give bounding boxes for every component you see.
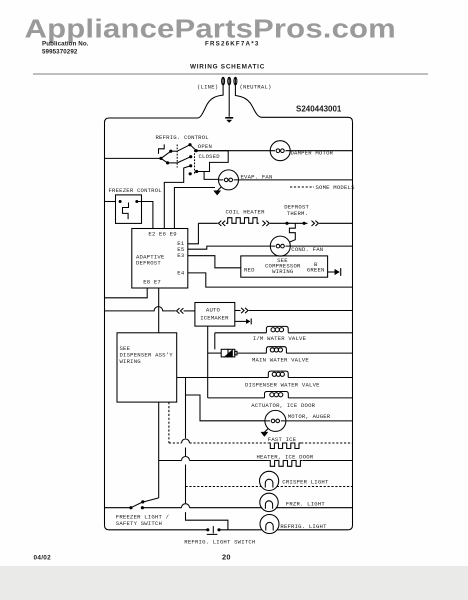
svg-text:E3: E3 [177, 252, 184, 259]
svg-text:AUTO: AUTO [206, 307, 221, 314]
freezer control box [116, 195, 142, 224]
main box top border right segment (NEUTRAL wire) [235, 85, 352, 122]
svg-text:THERM.: THERM. [287, 210, 308, 217]
wire pivot2 to linkage [168, 162, 178, 164]
node freezer control right [135, 200, 138, 203]
wire E8 to left border [105, 288, 148, 298]
svg-text:GREEN: GREEN [307, 267, 325, 274]
wire icemaker aux arrow [235, 320, 247, 322]
defrost thermostat step [289, 223, 295, 242]
hop freezer row over drop [182, 504, 190, 508]
hop heater row over drop [182, 457, 190, 461]
svg-text:ICEMAKER: ICEMAKER [200, 315, 229, 322]
node refrig control common [159, 157, 162, 160]
wire icemaker box to chevrons right [235, 310, 241, 312]
wire fast ice dashed right [301, 442, 352, 444]
node refrig switch left [206, 528, 209, 531]
node freezer switch left [129, 506, 132, 509]
wire defrost line to right border [319, 222, 352, 224]
wire chevrons to icemaker box [184, 310, 195, 312]
auger motor M4 [265, 410, 286, 431]
wire freezer row to bulb [190, 507, 263, 509]
svg-text:FRS26KF7A*3: FRS26KF7A*3 [205, 41, 259, 48]
wire crisper dashed left [186, 486, 262, 488]
auto icemaker box [195, 303, 235, 327]
svg-text:ACTUATOR, ICE DOOR: ACTUATOR, ICE DOOR [251, 402, 315, 409]
svg-text:Publication No.: Publication No. [42, 41, 89, 48]
wire damper motor to right border [290, 150, 352, 152]
connector chevrons defrost line [312, 221, 319, 226]
solenoid main water valve L2 [266, 347, 286, 353]
node pivot 2 [166, 161, 169, 164]
svg-text:REFRIG. LIGHT SWITCH: REFRIG. LIGHT SWITCH [184, 539, 255, 546]
solenoid actuator ice door L4 [265, 392, 289, 398]
hop fast ice over drop [182, 439, 190, 443]
refrig light switch base tick [207, 533, 218, 535]
wire refrig row right [277, 529, 348, 531]
node contact 2b [189, 172, 192, 175]
refrig control bracket [159, 144, 165, 153]
svg-text:WIRING: WIRING [120, 358, 142, 365]
plug prong right (NEUTRAL) [234, 77, 236, 85]
svg-text:REFRIG. LIGHT: REFRIG. LIGHT [280, 523, 327, 530]
compressor wiring box [241, 256, 328, 277]
wire E9 riser to ground [174, 188, 215, 229]
node freezer switch blade top [141, 500, 144, 503]
svg-text:EVAP. FAN: EVAP. FAN [241, 173, 273, 180]
wire auger motor to ground [264, 429, 268, 433]
svg-text:FREEZER CONTROL: FREEZER CONTROL [109, 187, 162, 194]
connector chevrons right of coil heater [262, 221, 269, 226]
svg-text:E4: E4 [177, 269, 185, 276]
wire freezer control to E2 riser [137, 202, 153, 229]
wire icemaker out to right border [249, 310, 353, 312]
plug prong middle (ground) [228, 77, 230, 117]
wire pivot1 to linkage [171, 150, 177, 152]
wire refrig row left [109, 529, 208, 531]
freezer control thermostat step [123, 203, 129, 220]
wire GREEN exit arrow [328, 271, 335, 273]
cond fan motor M3 [270, 236, 290, 256]
wire dispenser box to dispenser valve row [177, 377, 353, 379]
wire heater drop to switch blade [144, 498, 159, 502]
svg-text:MAIN WATER VALVE: MAIN WATER VALVE [252, 356, 309, 363]
wire coil heater to defrost thermostat [270, 222, 308, 224]
svg-text:COND. FAN: COND. FAN [291, 246, 323, 253]
svg-text:CLOSED: CLOSED [199, 153, 221, 160]
svg-text:CRISPER LIGHT: CRISPER LIGHT [282, 479, 329, 486]
wire branch to connector [208, 352, 222, 354]
evap fan motor M2 [219, 170, 239, 190]
svg-text:WIRING: WIRING [272, 268, 294, 275]
wire E7 riser to dispenser box [158, 288, 160, 333]
svg-text:DEFROST: DEFROST [136, 260, 161, 267]
wire auger motor to right border [286, 420, 353, 422]
main box left border [105, 118, 110, 530]
node freezer switch contact [141, 506, 144, 509]
node staircase end [195, 170, 198, 173]
refrig control linkage dashed 2 [194, 150, 196, 174]
refrig light switch plunger [212, 526, 214, 533]
wire heater ice door drop [158, 402, 160, 498]
wire E3 to compressor box [188, 256, 241, 268]
lamp freezer light DS2 [260, 493, 278, 511]
refrig control blade 1 [161, 151, 171, 158]
wire heater row to heater [190, 460, 269, 462]
wire fast ice dashed to heater [190, 442, 269, 444]
heater element coil heater [226, 218, 259, 224]
node OPEN contact [188, 143, 191, 146]
plug prong left (LINE) [222, 77, 224, 85]
connector main water valve [221, 349, 228, 357]
wire heater row right [303, 460, 353, 462]
wire freezer switch row from border [105, 507, 132, 509]
svg-text:RED: RED [244, 266, 255, 273]
heater element fast ice [268, 443, 301, 449]
refrig control blade to OPEN contact [177, 145, 190, 152]
node CLOSED contact [189, 155, 192, 158]
node defrost therm right [303, 222, 306, 225]
svg-text:FAST ICE: FAST ICE [268, 436, 297, 443]
svg-text:REFRIG. CONTROL: REFRIG. CONTROL [156, 134, 209, 141]
wire dispenser box right drop [186, 378, 228, 530]
wire crisper dashed right [277, 486, 353, 488]
node refrig switch right [217, 528, 220, 531]
node damper line tap [195, 149, 198, 152]
refrig control staircase wire [196, 151, 228, 172]
connector chevrons left of coil heater [218, 221, 225, 226]
main box right border [348, 122, 352, 530]
solenoid I/M water valve L1 [266, 326, 288, 332]
wire main water valve row [237, 352, 353, 354]
wire heater ice door row left [159, 460, 182, 462]
svg-text:MOTOR, AUGER: MOTOR, AUGER [288, 413, 331, 420]
wire contact 2 drop to E6 riser [164, 166, 190, 229]
wire evap fan to ground [218, 187, 222, 191]
main box top border left segment (LINE wire) [109, 85, 223, 118]
wire auger feed [186, 395, 265, 421]
solenoid dispenser water valve L3 [268, 371, 288, 377]
wire E1 to coil heater riser [188, 223, 199, 244]
wire freezer row to right border [276, 507, 353, 509]
svg-text:AppliancePartsPros.com: AppliancePartsPros.com [25, 15, 396, 44]
svg-text:DAMPER MOTOR: DAMPER MOTOR [291, 150, 334, 157]
wire fast ice dashed drop [168, 402, 170, 443]
damper motor M1 [270, 141, 290, 161]
svg-text:E8 E7: E8 E7 [143, 279, 161, 286]
title underline [33, 73, 428, 75]
wire actuator row [208, 397, 353, 399]
svg-text:SOME MODELS: SOME MODELS [316, 184, 356, 191]
ground symbol below plug [225, 117, 233, 119]
wire staircase to evap fan [197, 172, 219, 180]
svg-text:SAFETY SWITCH: SAFETY SWITCH [116, 520, 162, 527]
wire icemaker feed with hop [105, 307, 176, 311]
node defrost therm left [285, 222, 288, 225]
svg-text:DISPENSER WATER VALVE: DISPENSER WATER VALVE [245, 381, 320, 388]
freezer switch blade [131, 502, 143, 508]
bottom scan shading [0, 566, 468, 600]
lamp crisper light DS1 [260, 471, 279, 490]
svg-text:HEATER, ICE DOOR: HEATER, ICE DOOR [257, 453, 314, 460]
svg-text:(NEUTRAL): (NEUTRAL) [240, 84, 272, 91]
wire IM water valve row [215, 332, 353, 334]
svg-text:04/02: 04/02 [34, 555, 52, 562]
publication number block [42, 41, 89, 56]
wire icemaker box down [207, 326, 209, 398]
svg-text:20: 20 [222, 553, 231, 562]
svg-text:(LINE): (LINE) [197, 84, 218, 91]
lamp refrig light DS3 [260, 515, 279, 534]
node contact 2a [189, 164, 192, 167]
wire freezer row to hop [142, 507, 181, 509]
wire evap fan to right border [239, 179, 353, 181]
wire OPEN contact to damper line [190, 145, 196, 151]
svg-text:S240443001: S240443001 [296, 105, 342, 114]
svg-text:FRZR. LIGHT: FRZR. LIGHT [286, 500, 326, 507]
svg-text:COIL HEATER: COIL HEATER [226, 208, 266, 215]
wire from left border to refrig control [105, 157, 162, 159]
svg-text:5995370292: 5995370292 [42, 49, 78, 56]
wire refrig row middle [219, 529, 262, 531]
wire E5 to cond fan [188, 246, 270, 249]
coil heater feed wire [198, 222, 217, 224]
svg-text:E2 E6 E9: E2 E6 E9 [148, 231, 176, 238]
ground evap fan [214, 191, 221, 195]
wire left border to freezer control [105, 201, 116, 203]
wire IM valve corner riser [214, 333, 216, 350]
refrig control linkage dashed 1 [176, 145, 178, 168]
ground auger motor [261, 432, 268, 436]
damper motor feed wire [196, 150, 270, 152]
heater element ice door [268, 461, 302, 467]
connector chevrons icemaker out [241, 308, 248, 313]
refrig control blade to CLOSED contact [177, 157, 191, 163]
svg-text:OPEN: OPEN [198, 143, 212, 150]
wire cond fan to right border [290, 245, 352, 247]
svg-text:I/M WATER VALVE: I/M WATER VALVE [253, 335, 307, 342]
node freezer control left [119, 200, 122, 203]
refrig control blade 2 [161, 158, 168, 163]
wire E4 to right border [188, 273, 353, 287]
svg-text:WIRING SCHEMATIC: WIRING SCHEMATIC [190, 64, 265, 71]
adaptive defrost box U1 [132, 229, 188, 289]
dispenser assembly box [117, 333, 177, 402]
wire fast ice row dashed left [169, 442, 182, 444]
node pivot 1 [169, 150, 172, 153]
connector chevrons icemaker feed [177, 308, 184, 313]
legend dashed some models [290, 186, 314, 188]
